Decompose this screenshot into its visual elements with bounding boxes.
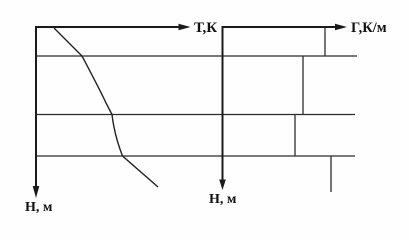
gradient step layer 1 [324,28,326,57]
svg-text:Н, м: Н, м [209,192,237,207]
svg-text:Н, м: Н, м [25,200,53,215]
left horizontal axis T [35,26,181,28]
layer boundary line 3 (y=156) [36,155,356,157]
left vertical axis H [35,27,37,191]
gradient step layer 2 [302,56,304,115]
right H-axis arrowhead (down) [219,180,226,191]
right Gamma-axis arrowhead (right) [335,24,347,30]
layer boundary line 2 (y=114.5) [36,114,356,116]
right vertical axis H [222,27,224,183]
svg-text:Г,К/м: Г,К/м [351,20,387,36]
gradient step layer 4 [330,156,332,192]
gradient step layer 3 [294,115,296,157]
left T-axis arrowhead (right) [179,24,191,30]
right horizontal axis Gamma [222,26,339,28]
svg-text:Т,К: Т,К [194,20,217,36]
left H-axis arrowhead (down) [33,186,40,198]
temperature curve [54,28,158,187]
layer boundary line 1 (y=56) [36,55,358,57]
